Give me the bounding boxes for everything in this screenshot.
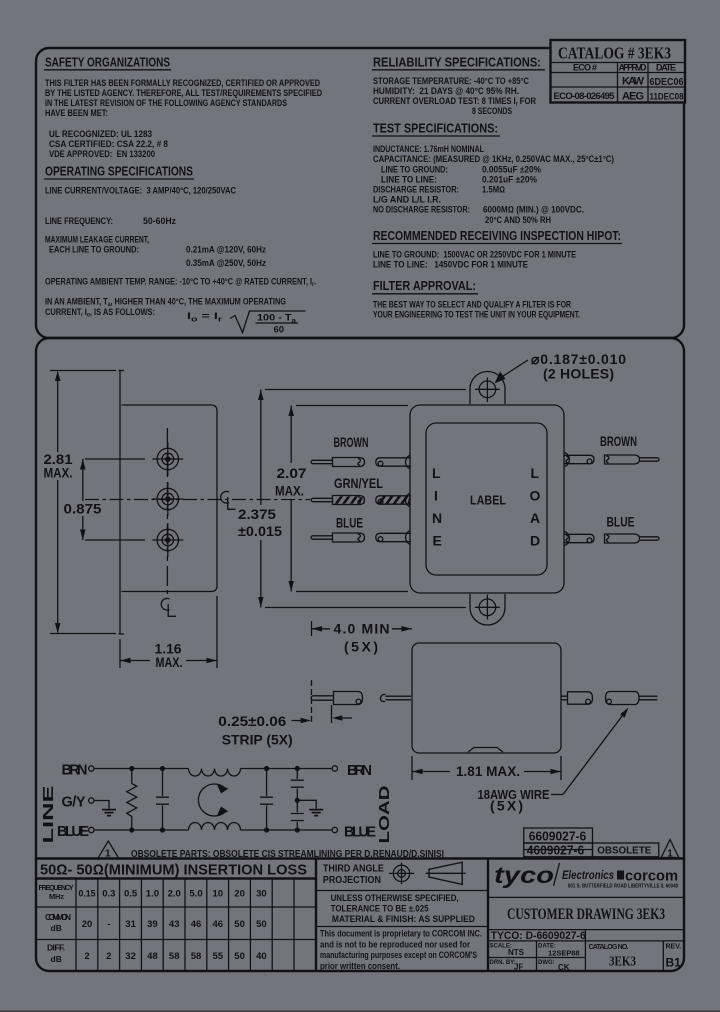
svg-text:50-60Hz: 50-60Hz xyxy=(143,216,176,226)
svg-text:1.81 MAX.: 1.81 MAX. xyxy=(456,763,520,779)
svg-text:0.25±0.06: 0.25±0.06 xyxy=(218,713,286,729)
svg-text:dB: dB xyxy=(51,954,62,964)
svg-text:BROWN: BROWN xyxy=(334,434,369,450)
svg-text:LINE: LINE xyxy=(41,785,57,844)
svg-text:BY THE LISTED AGENCY. THEREFOR: BY THE LISTED AGENCY. THEREFORE, ALL TES… xyxy=(45,88,322,98)
svg-text:CSA CERTIFIED: CSA 22.2, # 8: CSA CERTIFIED: CSA 22.2, # 8 xyxy=(49,139,168,149)
svg-text:AEG: AEG xyxy=(622,91,644,103)
svg-text:DIFF.: DIFF. xyxy=(47,943,65,953)
svg-text:0.5: 0.5 xyxy=(124,889,138,900)
svg-text:2.0: 2.0 xyxy=(168,889,181,900)
svg-text:1: 1 xyxy=(667,849,673,860)
svg-text:50: 50 xyxy=(256,919,267,930)
svg-text:corcom: corcom xyxy=(625,869,678,885)
svg-text:STRIP (5X): STRIP (5X) xyxy=(222,732,293,748)
svg-text:DWG:: DWG: xyxy=(538,960,555,966)
svg-text:tyco: tyco xyxy=(494,862,554,888)
svg-text:E: E xyxy=(433,533,442,549)
svg-text:30: 30 xyxy=(256,889,267,900)
svg-text:LINE TO GROUND:: LINE TO GROUND: xyxy=(381,165,448,175)
svg-text:2: 2 xyxy=(106,951,111,962)
svg-text:BRN: BRN xyxy=(62,763,88,779)
svg-text:L/G AND L/L I.R.: L/G AND L/L I.R. xyxy=(373,195,441,205)
svg-text:This document is proprietary t: This document is proprietary to CORCOM I… xyxy=(320,929,482,939)
svg-text:GRN/YEL: GRN/YEL xyxy=(334,475,383,491)
svg-text:LINE TO GROUND: 1500VAC OR 22: LINE TO GROUND: 1500VAC OR 2250VDC FOR 1… xyxy=(373,250,576,260)
svg-text:manufacturing purposes except: manufacturing purposes except on CORCOM'… xyxy=(320,950,477,960)
svg-text:5.0: 5.0 xyxy=(189,889,202,900)
svg-text:D: D xyxy=(530,533,540,549)
svg-text:YOUR ENGINEERING TO TEST THE U: YOUR ENGINEERING TO TEST THE UNIT IN YOU… xyxy=(373,310,580,320)
svg-text:N: N xyxy=(432,510,442,526)
svg-text:OPERATING AMBIENT TEMP. RANGE:: OPERATING AMBIENT TEMP. RANGE: -10°C TO … xyxy=(45,277,316,289)
svg-text:dB: dB xyxy=(51,923,62,933)
svg-text:LOAD: LOAD xyxy=(377,786,393,844)
svg-text:UL RECOGNIZED: UL 1283: UL RECOGNIZED: UL 1283 xyxy=(49,129,152,139)
svg-text:MAX.: MAX. xyxy=(156,654,183,670)
svg-text:(2 HOLES): (2 HOLES) xyxy=(543,366,614,382)
svg-text:0.21mA @120V, 60Hz: 0.21mA @120V, 60Hz xyxy=(186,245,266,255)
svg-text:1.5MΩ: 1.5MΩ xyxy=(482,185,505,195)
svg-text:VDE APPROVED: EN 133200: VDE APPROVED: EN 133200 xyxy=(49,149,155,159)
svg-text:JF: JF xyxy=(514,963,523,972)
svg-text:LINE TO LINE:: LINE TO LINE: xyxy=(381,175,437,185)
svg-text:DISCHARGE RESISTOR:: DISCHARGE RESISTOR: xyxy=(373,185,459,195)
svg-text:INDUCTANCE: 1.76mH NOMINAL: INDUCTANCE: 1.76mH NOMINAL xyxy=(373,144,484,154)
svg-text:0.3: 0.3 xyxy=(102,889,115,900)
svg-text:OBSOLETE: OBSOLETE xyxy=(597,845,651,857)
svg-text:CK: CK xyxy=(558,963,570,972)
svg-text:BLUE: BLUE xyxy=(344,825,376,841)
svg-text:-: - xyxy=(107,919,110,930)
svg-text:PROJECTION: PROJECTION xyxy=(323,874,381,886)
svg-text:0.875: 0.875 xyxy=(64,501,102,517)
svg-text:APPRVD: APPRVD xyxy=(619,63,648,73)
svg-text:1: 1 xyxy=(105,849,111,860)
svg-text:CATALOG # 3EK3: CATALOG # 3EK3 xyxy=(558,44,671,63)
svg-text:L: L xyxy=(432,465,441,481)
svg-text:CAPACITANCE: (MEASURED @ 1KHz,: CAPACITANCE: (MEASURED @ 1KHz, 0.250VAC … xyxy=(373,154,614,164)
svg-text:CATALOG NO.: CATALOG NO. xyxy=(589,944,629,951)
svg-text:12SEP88: 12SEP88 xyxy=(548,949,580,958)
svg-text:0.0055uF ±20%: 0.0055uF ±20% xyxy=(482,165,541,175)
svg-text:RELIABILITY SPECIFICATIONS:: RELIABILITY SPECIFICATIONS: xyxy=(373,55,541,70)
svg-text:and is not to be reproduced no: and is not to be reproduced nor used for xyxy=(320,940,471,950)
svg-text:prior written consent.: prior written consent. xyxy=(320,961,400,971)
svg-text:4.0 MIN: 4.0 MIN xyxy=(334,621,390,637)
svg-text:43: 43 xyxy=(169,919,180,930)
svg-text:OPERATING SPECIFICATIONS: OPERATING SPECIFICATIONS xyxy=(45,164,193,179)
svg-text:(5X): (5X) xyxy=(344,639,378,655)
svg-text:Io = Ir: Io = Ir xyxy=(187,311,222,324)
svg-text:MHz: MHz xyxy=(49,892,64,901)
svg-text:Electronics: Electronics xyxy=(562,870,614,882)
svg-text:1.0: 1.0 xyxy=(146,889,159,900)
svg-text:BRN: BRN xyxy=(347,763,372,779)
svg-text:ECO #: ECO # xyxy=(573,63,597,73)
svg-text:LINE CURRENT/VOLTAGE: 3 AMP/4: LINE CURRENT/VOLTAGE: 3 AMP/40°C, 120/25… xyxy=(45,186,236,196)
svg-text:STORAGE TEMPERATURE: -40°C TO: STORAGE TEMPERATURE: -40°C TO +85°C xyxy=(373,76,529,86)
svg-text:COMMON: COMMON xyxy=(45,912,71,922)
svg-text:SAFETY ORGANIZATIONS: SAFETY ORGANIZATIONS xyxy=(45,55,170,70)
svg-text:O: O xyxy=(530,488,541,504)
svg-text:L: L xyxy=(531,465,540,481)
svg-text:6000MΩ (MIN.) @ 100VDC.: 6000MΩ (MIN.) @ 100VDC. xyxy=(483,205,584,215)
svg-text:2.07: 2.07 xyxy=(277,465,307,481)
svg-text:4609027-6: 4609027-6 xyxy=(527,844,585,858)
svg-text:58: 58 xyxy=(191,951,202,962)
svg-text:BLUE: BLUE xyxy=(607,514,635,530)
svg-text:6DEC06: 6DEC06 xyxy=(650,76,684,88)
svg-text:KAW: KAW xyxy=(622,76,645,88)
svg-text:10: 10 xyxy=(213,889,224,900)
svg-text:801 S. BUTTERFIELD ROAD LIBERT: 801 S. BUTTERFIELD ROAD LIBERTYVILLE IL … xyxy=(568,884,678,890)
svg-text:CURRENT, Io, IS AS FOLLOWS:: CURRENT, Io, IS AS FOLLOWS: xyxy=(45,307,155,319)
svg-text:MAXIMUM LEAKAGE CURRENT,: MAXIMUM LEAKAGE CURRENT, xyxy=(45,235,149,245)
svg-text:THIRD ANGLE: THIRD ANGLE xyxy=(323,863,384,875)
svg-text:±0.015: ±0.015 xyxy=(238,523,282,539)
svg-text:LINE TO LINE: 1450VDC FOR 1: LINE TO LINE: 1450VDC FOR 1 MINUTE xyxy=(373,260,528,270)
svg-text:TYCO: D-6609027-6: TYCO: D-6609027-6 xyxy=(491,930,586,942)
svg-text:B1: B1 xyxy=(666,956,682,970)
svg-text:HAVE BEEN MET:: HAVE BEEN MET: xyxy=(45,108,108,118)
svg-text:55: 55 xyxy=(213,951,224,962)
svg-text:2: 2 xyxy=(84,951,89,962)
svg-text:MAX.: MAX. xyxy=(44,465,73,481)
svg-text:MAX.: MAX. xyxy=(275,483,304,499)
svg-text:A: A xyxy=(530,510,540,526)
svg-text:OBSOLETE PARTS: OBSOLETE CIS S: OBSOLETE PARTS: OBSOLETE CIS STREAMLININ… xyxy=(131,848,444,860)
svg-text:NTS: NTS xyxy=(508,948,525,957)
svg-text:11DEC08: 11DEC08 xyxy=(650,92,684,103)
svg-text:31: 31 xyxy=(125,919,136,930)
svg-text:32: 32 xyxy=(125,951,136,962)
svg-text:FREQUENCY: FREQUENCY xyxy=(39,885,74,892)
svg-text:8 SECONDS: 8 SECONDS xyxy=(472,106,512,116)
svg-text:BLUE: BLUE xyxy=(336,515,363,531)
svg-text:TOLERANCE TO BE ±.025: TOLERANCE TO BE ±.025 xyxy=(331,903,430,914)
svg-text:6609027-6: 6609027-6 xyxy=(529,830,587,844)
svg-text:0.15: 0.15 xyxy=(79,889,97,900)
svg-text:58: 58 xyxy=(169,951,180,962)
svg-text:NO DISCHARGE RESISTOR:: NO DISCHARGE RESISTOR: xyxy=(373,205,470,215)
svg-text:20°C AND 50% RH: 20°C AND 50% RH xyxy=(485,215,551,225)
svg-text:HUMIDITY: 21 DAYS @ 40°C 95%: HUMIDITY: 21 DAYS @ 40°C 95% RH. xyxy=(373,86,519,96)
svg-text:2.375: 2.375 xyxy=(238,506,276,522)
svg-text:LABEL: LABEL xyxy=(470,493,506,508)
svg-text:MATERIAL & FINISH: AS SUPPLIED: MATERIAL & FINISH: AS SUPPLIED xyxy=(332,914,475,925)
svg-text:20: 20 xyxy=(234,889,245,900)
svg-text:DRN. BY:: DRN. BY: xyxy=(490,960,516,966)
svg-text:TEST SPECIFICATIONS:: TEST SPECIFICATIONS: xyxy=(373,121,498,136)
svg-text:0.201uF ±20%: 0.201uF ±20% xyxy=(482,175,537,185)
svg-text:46: 46 xyxy=(213,919,224,930)
svg-text:46: 46 xyxy=(191,919,202,930)
svg-text:LINE FREQUENCY:: LINE FREQUENCY: xyxy=(45,216,113,226)
svg-text:40: 40 xyxy=(256,951,267,962)
svg-text:IN THE LATEST REVISION OF THE: IN THE LATEST REVISION OF THE FOLLOWING … xyxy=(45,98,287,108)
svg-text:REV.: REV. xyxy=(666,944,682,951)
svg-text:0.35mA @250V, 50Hz: 0.35mA @250V, 50Hz xyxy=(186,258,266,268)
svg-text:THIS FILTER HAS BEEN FORMALLY: THIS FILTER HAS BEEN FORMALLY RECOGNIZED… xyxy=(45,78,320,88)
svg-text:CUSTOMER DRAWING 3EK3: CUSTOMER DRAWING 3EK3 xyxy=(507,906,665,923)
svg-text:BLUE: BLUE xyxy=(57,824,89,840)
svg-text:RECOMMENDED RECEIVING INSPECTI: RECOMMENDED RECEIVING INSPECTION HIPOT: xyxy=(373,228,621,243)
svg-text:39: 39 xyxy=(147,919,158,930)
svg-text:G/Y: G/Y xyxy=(62,795,86,811)
svg-text:THE BEST WAY TO SELECT AND QUA: THE BEST WAY TO SELECT AND QUALIFY A FIL… xyxy=(373,300,571,310)
svg-text:50: 50 xyxy=(234,919,245,930)
svg-text:DATE: DATE xyxy=(656,63,676,73)
svg-text:60: 60 xyxy=(274,325,285,336)
svg-text:20: 20 xyxy=(82,919,93,930)
svg-text:I: I xyxy=(434,488,438,504)
svg-text:BROWN: BROWN xyxy=(600,433,637,449)
svg-text:3EK3: 3EK3 xyxy=(609,955,636,970)
svg-text:ECO-08-026495: ECO-08-026495 xyxy=(554,91,616,102)
svg-text:50Ω- 50Ω(MINIMUM) INSERTION LO: 50Ω- 50Ω(MINIMUM) INSERTION LOSS xyxy=(40,863,307,879)
svg-text:FILTER APPROVAL:: FILTER APPROVAL: xyxy=(373,278,476,293)
svg-text:EACH LINE TO GROUND:: EACH LINE TO GROUND: xyxy=(49,245,139,255)
svg-text:48: 48 xyxy=(147,951,158,962)
svg-text:50: 50 xyxy=(234,951,245,962)
